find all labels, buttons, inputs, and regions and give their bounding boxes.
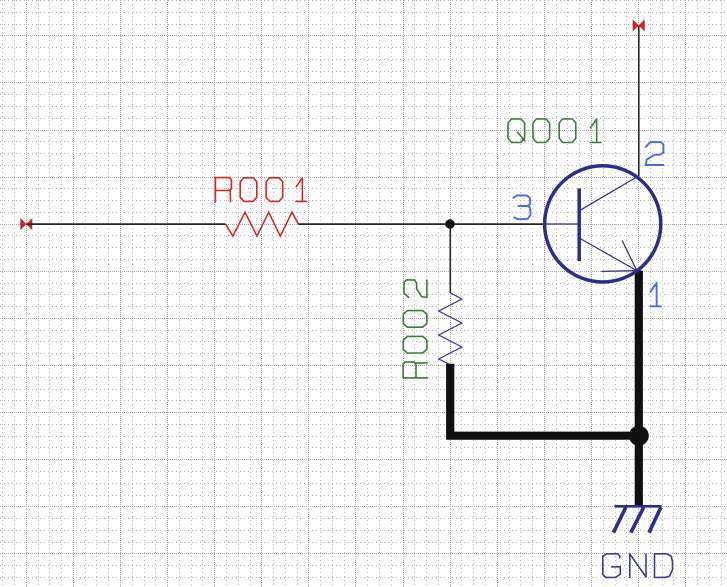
transistor Q1 [545,166,661,282]
ground [613,506,661,532]
wire [450,364,639,436]
label GND [603,554,673,578]
node A (junction dot) [445,219,454,228]
pin number 3 [513,195,530,219]
pin number 1 [650,283,661,307]
pin P1 (left connector pin) [20,218,32,230]
wire [298,223,543,225]
resistor R1 [226,212,299,236]
wire [449,224,451,293]
label R001 [215,178,306,202]
node B (junction dot) [629,426,649,446]
label R002 [403,280,427,378]
wire [26,223,225,225]
wire [635,271,643,507]
pin number 2 [646,142,664,165]
wire [638,26,640,177]
pin P2 (top connector pin) [633,19,645,31]
resistor R2 [439,293,462,365]
label Q001 [508,119,601,143]
